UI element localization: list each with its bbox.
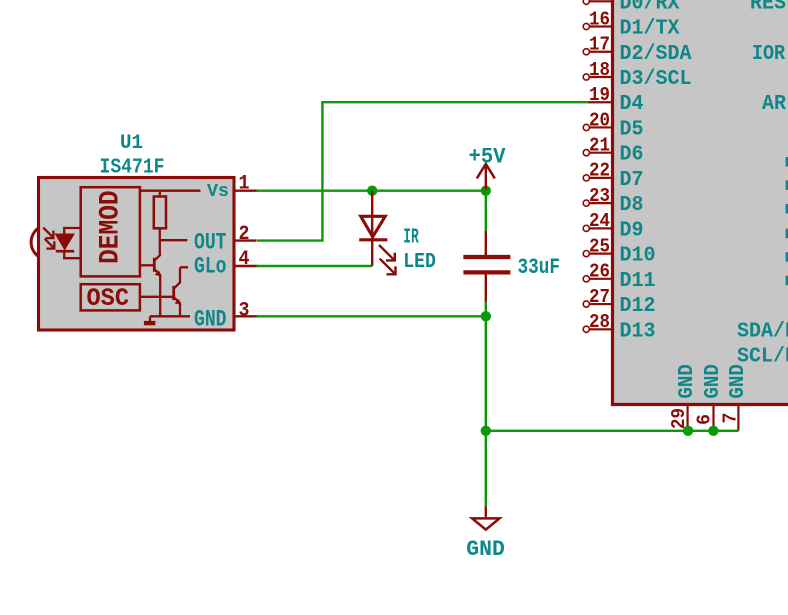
svg-text:2: 2 bbox=[239, 223, 250, 246]
label 33uF bbox=[518, 254, 561, 280]
pin 22 (D7) of U2 bbox=[583, 160, 643, 192]
LED emission arrow 1 bbox=[379, 245, 395, 260]
svg-text:D7: D7 bbox=[620, 169, 644, 192]
svg-text:GND: GND bbox=[676, 364, 699, 399]
label A4 fragment (cut) bbox=[786, 252, 788, 262]
+5V power symbol bbox=[477, 164, 495, 190]
wire GND bus to U2 pins bbox=[486, 430, 739, 432]
resistor (inside U1) bbox=[154, 191, 166, 255]
pin name OUT bbox=[194, 229, 227, 255]
junction node +5V bbox=[481, 186, 491, 196]
label IR LED bbox=[403, 226, 436, 274]
svg-text:RES: RES bbox=[750, 0, 786, 15]
svg-text:17: 17 bbox=[589, 34, 610, 56]
svg-text:6: 6 bbox=[694, 414, 716, 425]
label AREF (cut) bbox=[762, 93, 786, 116]
wire OUT net: U1 pin2 up and over to D4 bbox=[257, 102, 589, 240]
LED D1 IR bbox=[359, 191, 387, 266]
label A1 fragment (cut) bbox=[786, 180, 788, 190]
label +5V bbox=[469, 143, 506, 169]
svg-text:22: 22 bbox=[589, 160, 610, 182]
svg-text:D8: D8 bbox=[620, 194, 644, 217]
svg-text:IR: IR bbox=[403, 226, 419, 249]
label SCL/D19 (cut) bbox=[737, 346, 788, 369]
transistor Q2 (inside U1) bbox=[141, 267, 182, 317]
IC U2 Arduino module body bbox=[613, 0, 788, 405]
svg-text:IS471F: IS471F bbox=[100, 156, 165, 180]
svg-text:25: 25 bbox=[589, 235, 610, 257]
svg-text:U1: U1 bbox=[120, 132, 143, 155]
wire capacitor bottom to GND node bbox=[485, 302, 487, 317]
pin 25 (D10) of U2 bbox=[583, 235, 655, 267]
label GND pin 29 bbox=[676, 364, 699, 399]
pin 18 (D3/SCL) of U2 bbox=[583, 59, 691, 91]
pin 3 of U1 bbox=[234, 300, 257, 323]
pin 23 (D8) of U2 bbox=[583, 185, 643, 217]
svg-text:+5V: +5V bbox=[469, 143, 506, 169]
pin 19 (D4) of U2 bbox=[588, 84, 644, 116]
svg-text:20: 20 bbox=[589, 109, 610, 131]
svg-text:D4: D4 bbox=[620, 93, 644, 116]
label IOREF (cut) bbox=[752, 43, 785, 66]
svg-text:D3/SCL: D3/SCL bbox=[620, 68, 692, 91]
label GND bbox=[466, 536, 505, 562]
svg-text:16: 16 bbox=[589, 8, 610, 30]
wire +5V vertical to capacitor bbox=[485, 191, 487, 231]
pin 20 (D5) of U2 bbox=[583, 109, 643, 141]
pin 27 (D12) of U2 bbox=[583, 286, 655, 318]
svg-text:28: 28 bbox=[589, 311, 610, 333]
pin 24 (D9) of U2 bbox=[583, 210, 643, 242]
svg-text:AR: AR bbox=[762, 93, 786, 116]
pin 7 (GND) of U2 bbox=[720, 406, 742, 431]
label U1 bbox=[120, 132, 143, 155]
lens arc of U1 bbox=[31, 228, 39, 258]
transistor Q1 (inside U1) bbox=[141, 254, 162, 317]
label A3 fragment (cut) bbox=[786, 229, 788, 239]
svg-text:IOR: IOR bbox=[752, 43, 785, 66]
svg-text:GND: GND bbox=[194, 306, 227, 332]
svg-text:GND: GND bbox=[727, 364, 750, 399]
pin name Vs bbox=[207, 181, 229, 202]
svg-text:D13: D13 bbox=[620, 320, 656, 343]
svg-text:D9: D9 bbox=[620, 219, 644, 242]
wire GND vertical down bbox=[485, 316, 487, 506]
svg-text:D2/SDA: D2/SDA bbox=[620, 43, 692, 66]
pin 17 (D2/SDA) of U2 bbox=[583, 34, 692, 66]
pin 4 of U1 bbox=[234, 248, 257, 271]
svg-text:D10: D10 bbox=[620, 245, 656, 268]
svg-text:OSC: OSC bbox=[87, 284, 130, 313]
svg-text:3: 3 bbox=[239, 300, 250, 323]
svg-text:GND: GND bbox=[702, 364, 725, 399]
pin 21 (D6) of U2 bbox=[583, 134, 643, 166]
ground symbol bbox=[472, 507, 499, 530]
label A2 fragment (cut) bbox=[786, 204, 788, 214]
junction node LED anode bbox=[367, 186, 377, 196]
capacitor C1 33uF bbox=[463, 231, 510, 302]
svg-text:GND: GND bbox=[466, 536, 505, 562]
svg-text:18: 18 bbox=[589, 59, 610, 81]
pin name GLo bbox=[194, 253, 227, 279]
light arrow 1 into photodiode bbox=[43, 228, 53, 239]
svg-text:D1/TX: D1/TX bbox=[620, 18, 680, 41]
internal ground (U1) bbox=[144, 316, 190, 325]
pin 15 (D0/RX) of U2 bbox=[583, 0, 680, 15]
pin 16 (D1/TX) of U2 bbox=[583, 8, 680, 40]
wire GND net: U1 pin3 to capacitor bottom bbox=[257, 315, 486, 317]
svg-text:21: 21 bbox=[589, 134, 610, 156]
svg-text:OUT: OUT bbox=[194, 229, 227, 255]
label GND pin 6 bbox=[702, 364, 725, 399]
internal wire OUT (U1) bbox=[160, 239, 188, 241]
photodiode D (inside U1) bbox=[56, 228, 80, 258]
pin 6 (GND) of U2 bbox=[694, 406, 716, 431]
svg-text:D12: D12 bbox=[620, 295, 656, 318]
svg-text:DEMOD: DEMOD bbox=[96, 190, 127, 264]
pin 2 of U1 bbox=[234, 223, 257, 246]
pin 29 (GND) of U2 bbox=[668, 406, 690, 431]
label A0 fragment (cut) bbox=[786, 157, 788, 167]
svg-text:SDA/D: SDA/D bbox=[737, 320, 788, 343]
junction node GND bus left bbox=[481, 426, 491, 436]
svg-text:23: 23 bbox=[589, 185, 610, 207]
junction node GND pin6 bbox=[708, 426, 718, 436]
label SDA/D18 (cut) bbox=[737, 320, 788, 343]
svg-text:19: 19 bbox=[589, 84, 610, 106]
svg-text:27: 27 bbox=[589, 286, 610, 308]
svg-text:D5: D5 bbox=[620, 118, 644, 141]
label IS471F value bbox=[100, 156, 165, 180]
pin 1 of U1 bbox=[234, 173, 257, 196]
wire Vs net: U1 pin1 to +5V bbox=[257, 189, 486, 191]
pin name GND bbox=[194, 306, 227, 332]
svg-text:33uF: 33uF bbox=[518, 254, 561, 280]
label A5 fragment (cut) bbox=[786, 276, 788, 286]
light arrow 2 into photodiode bbox=[45, 239, 55, 249]
label RESET (cut) bbox=[750, 0, 786, 15]
junction node GND cap bbox=[481, 311, 491, 321]
IC U1 body bbox=[39, 178, 235, 331]
internal wire Vs (U1) bbox=[141, 190, 201, 192]
junction node GND pin29 bbox=[683, 426, 693, 436]
svg-text:D6: D6 bbox=[620, 144, 644, 167]
svg-text:1: 1 bbox=[239, 173, 250, 196]
svg-text:D11: D11 bbox=[620, 270, 656, 293]
block OSC (inside U1) bbox=[81, 284, 140, 313]
svg-text:Vs: Vs bbox=[207, 181, 229, 202]
svg-text:24: 24 bbox=[589, 210, 610, 232]
svg-text:7: 7 bbox=[720, 413, 742, 424]
wire GLo net: U1 pin4 to LED cathode bbox=[257, 265, 373, 267]
svg-text:26: 26 bbox=[589, 261, 610, 283]
internal wire GLo (U1) bbox=[180, 266, 188, 268]
svg-text:GLo: GLo bbox=[194, 253, 227, 279]
LED emission arrow 2 bbox=[380, 259, 396, 275]
block DEMOD (inside U1) bbox=[81, 187, 140, 276]
pin 28 (D13) of U2 bbox=[583, 311, 655, 343]
svg-text:LED: LED bbox=[403, 251, 436, 274]
label GND pin 7 bbox=[727, 364, 750, 399]
pin 26 (D11) of U2 bbox=[583, 261, 655, 293]
svg-text:4: 4 bbox=[239, 248, 250, 271]
svg-text:D0/RX: D0/RX bbox=[620, 0, 680, 15]
